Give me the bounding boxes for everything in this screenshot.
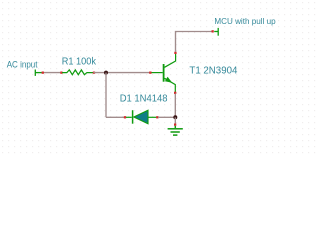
wire node A bottom to diode [106, 116, 125, 118]
wire diode to node B [158, 116, 175, 118]
pin dot base [149, 72, 151, 74]
wire node A down [105, 73, 107, 118]
pin dot MCU [212, 30, 214, 32]
junction node B [173, 115, 177, 119]
resistor R1 [62, 70, 93, 75]
transistor T1 emitter [165, 78, 176, 93]
pin dot emitter [174, 92, 176, 94]
diode D1 cathode bar [132, 110, 134, 124]
wire R1 to base [94, 72, 151, 74]
pin dot diode left [124, 116, 126, 118]
wire collector to MCU [176, 32, 214, 53]
svg-text:MCU with pull up: MCU with pull up [214, 16, 276, 26]
diode D1 triangle [134, 110, 148, 124]
transistor T1 collector [165, 53, 176, 68]
pin dot diode right [156, 116, 158, 118]
svg-text:AC input: AC input [7, 59, 38, 69]
ground [168, 126, 183, 135]
diode D1 cathode lead [126, 116, 132, 118]
pin dot R1 left [60, 72, 62, 74]
transistor T1 base lead [152, 72, 163, 74]
pin dot ground [174, 124, 176, 126]
junction node A [104, 71, 108, 75]
svg-text:D1 1N4148: D1 1N4148 [120, 94, 168, 105]
pin dot collector [174, 52, 176, 54]
pin dot R1 right [93, 72, 95, 74]
transistor T1 emitter arrow [165, 77, 172, 83]
terminal pin AC input [35, 70, 42, 76]
pin dot input [42, 72, 44, 74]
wire input to R1 [44, 72, 62, 74]
diode D1 anode lead [148, 116, 157, 118]
svg-text:T1 2N3904: T1 2N3904 [189, 66, 237, 77]
terminal pin MCU [214, 28, 218, 36]
wire emitter down [174, 94, 176, 118]
transistor T1 base bar [163, 64, 165, 82]
svg-text:R1 100k: R1 100k [62, 56, 96, 67]
wire node B to ground [174, 117, 176, 124]
